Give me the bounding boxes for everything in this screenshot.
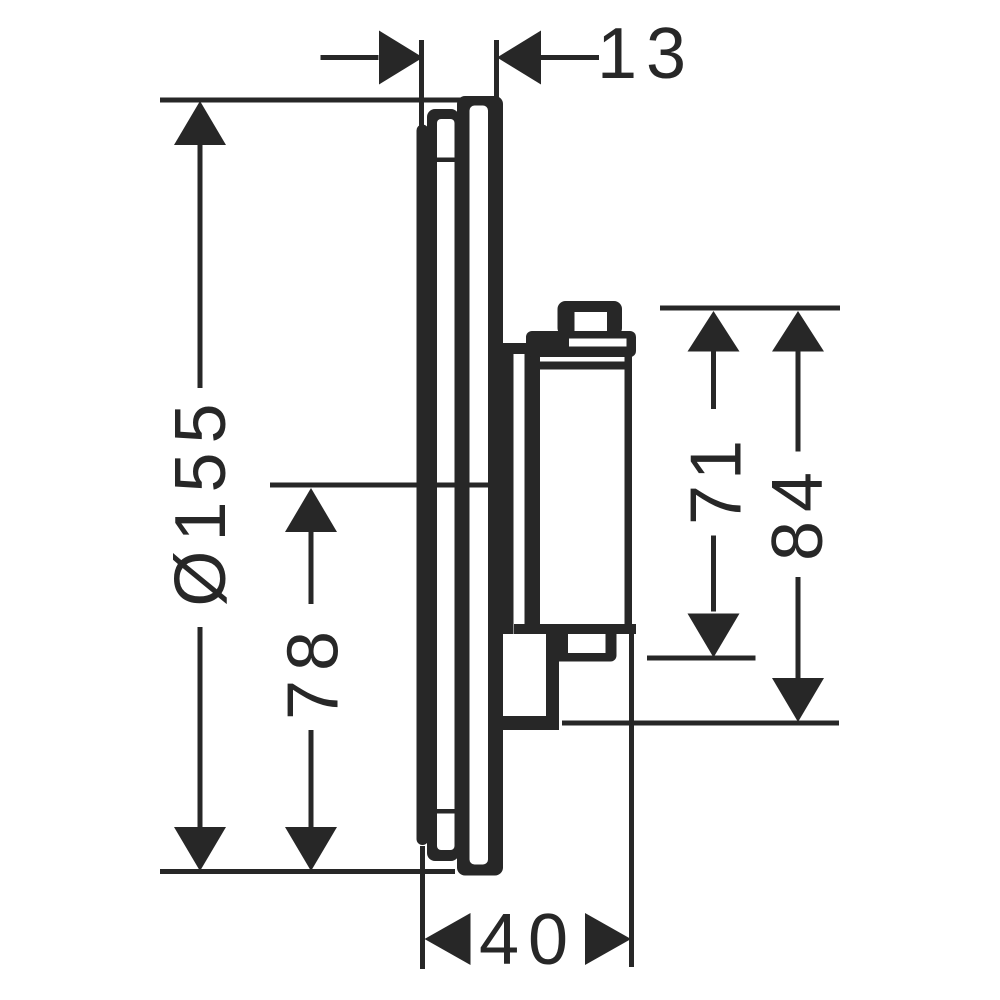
dim71 bottom extension line — [647, 656, 756, 661]
dim155 arrow down — [174, 827, 226, 871]
dim155 line upper — [198, 144, 203, 388]
svg-text:40: 40 — [479, 900, 577, 980]
dim13 right extension line — [494, 40, 499, 103]
svg-text:78: 78 — [274, 622, 354, 720]
valve lower piece right wall — [546, 634, 559, 730]
dim78 arrow up — [285, 488, 337, 532]
center reference line — [270, 483, 494, 488]
dim71 arrow down — [688, 614, 740, 658]
dim71 line lower — [711, 536, 716, 612]
dim84 bottom extension line — [562, 721, 839, 726]
valve body right wall — [625, 347, 633, 634]
dim13 arrow left — [497, 31, 541, 85]
svg-text:84: 84 — [758, 463, 838, 561]
dim13 right tail — [541, 55, 599, 60]
dim155 arrow up — [174, 101, 226, 145]
dim155 line lower — [198, 627, 203, 828]
dim40 right extension line — [629, 634, 634, 967]
dim71 arrow up — [688, 311, 740, 352]
dim78 line upper — [309, 532, 314, 604]
dim40 arrow right — [585, 913, 631, 965]
dim155 bottom extension line — [160, 869, 455, 874]
plate back ring — [417, 125, 429, 846]
top right extension line — [660, 306, 840, 311]
dim71 line upper — [711, 352, 716, 410]
plate front cover — [457, 96, 503, 876]
dim84 arrow down — [772, 678, 824, 722]
valve body left wall — [525, 343, 541, 634]
dim155 top extension line — [160, 98, 499, 103]
valve body top bar — [540, 362, 628, 370]
valve lower piece bottom bar — [502, 716, 559, 730]
dim13 left extension line — [419, 40, 424, 126]
plate carrier — [427, 109, 459, 861]
dim78 line lower — [309, 730, 314, 827]
stem top bar — [500, 343, 526, 354]
dim84 line lower — [796, 577, 801, 679]
dim84 arrow up — [772, 311, 824, 352]
valve top tab — [558, 301, 623, 336]
valve body bottom bar — [514, 624, 636, 634]
svg-text:13: 13 — [597, 14, 695, 94]
dim78 arrow down — [285, 827, 337, 871]
dim13 arrow right — [379, 31, 423, 85]
dim40 arrow left — [425, 913, 471, 965]
svg-text:71: 71 — [677, 435, 757, 525]
dim13 left tail — [321, 55, 379, 60]
carrier crossbar top — [437, 158, 455, 163]
svg-text:Ø155: Ø155 — [161, 394, 241, 606]
dim84 line upper — [796, 352, 801, 452]
carrier crossbar bottom — [437, 809, 455, 814]
dim40 left extension line — [420, 846, 425, 969]
valve bottom tab — [553, 634, 617, 662]
valve collar — [526, 331, 636, 357]
stem left wall — [502, 343, 514, 634]
